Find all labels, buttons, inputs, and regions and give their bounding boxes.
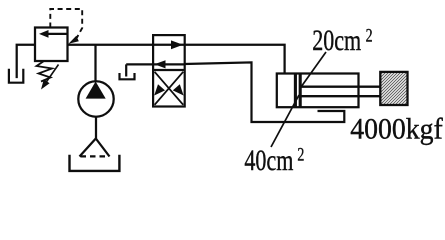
svg-text:40cm: 40cm	[244, 144, 293, 177]
svg-text:20cm: 20cm	[312, 24, 361, 57]
svg-text:4000kgf: 4000kgf	[350, 113, 443, 146]
svg-text:2: 2	[366, 24, 373, 46]
svg-text:2: 2	[297, 143, 304, 165]
